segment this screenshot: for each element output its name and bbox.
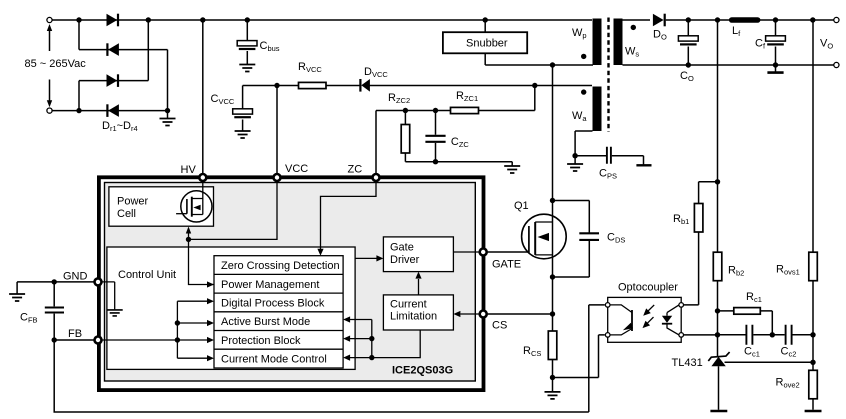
svg-text:85 ~ 265Vac: 85 ~ 265Vac bbox=[25, 58, 87, 70]
svg-text:Zero Crossing Detection: Zero Crossing Detection bbox=[221, 260, 340, 272]
svg-text:Cell: Cell bbox=[117, 208, 136, 220]
svg-text:GND: GND bbox=[63, 271, 88, 283]
svg-text:ICE2QS03G: ICE2QS03G bbox=[392, 365, 453, 377]
svg-text:Optocoupler: Optocoupler bbox=[618, 282, 678, 294]
svg-text:Current Mode Control: Current Mode Control bbox=[221, 354, 327, 366]
svg-text:Active Burst Mode: Active Burst Mode bbox=[221, 316, 310, 328]
svg-text:HV: HV bbox=[181, 164, 197, 176]
svg-text:Snubber: Snubber bbox=[466, 38, 508, 50]
svg-text:Current: Current bbox=[390, 299, 427, 311]
svg-text:Power Management: Power Management bbox=[221, 279, 319, 291]
svg-text:Power: Power bbox=[117, 196, 149, 208]
svg-text:Protection Block: Protection Block bbox=[221, 335, 301, 347]
svg-text:VCC: VCC bbox=[285, 163, 308, 175]
svg-text:CS: CS bbox=[492, 320, 507, 332]
svg-text:ZC: ZC bbox=[348, 164, 363, 176]
svg-text:GATE: GATE bbox=[492, 259, 521, 271]
svg-text:Digital Process Block: Digital Process Block bbox=[221, 298, 325, 310]
svg-text:FB: FB bbox=[68, 328, 82, 340]
svg-text:Q1: Q1 bbox=[514, 200, 529, 212]
svg-text:Limitation: Limitation bbox=[390, 311, 437, 323]
svg-text:Gate: Gate bbox=[390, 242, 414, 254]
svg-text:Driver: Driver bbox=[390, 254, 420, 266]
svg-text:Control Unit: Control Unit bbox=[118, 269, 176, 281]
svg-text:TL431: TL431 bbox=[672, 357, 703, 369]
